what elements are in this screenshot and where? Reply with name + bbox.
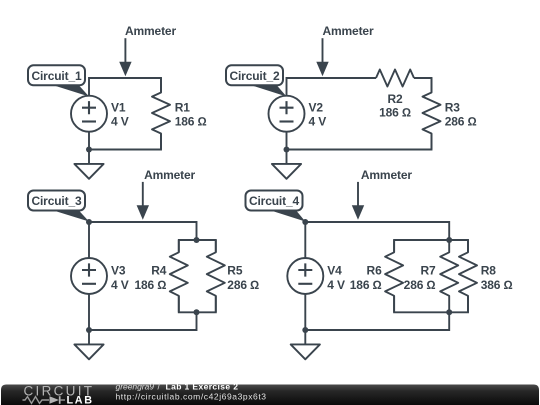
svg-text:186 Ω: 186 Ω — [350, 278, 382, 292]
svg-text:Circuit_1: Circuit_1 — [31, 69, 81, 83]
wire: Circuit 2 bottom wire — [287, 132, 432, 150]
svg-text:V3: V3 — [111, 263, 126, 277]
svg-text:R1: R1 — [175, 100, 191, 114]
svg-text:R8: R8 — [481, 263, 497, 277]
wire: Circuit 4 bottom wire — [305, 294, 449, 330]
node: circuit 3 parallel top junction — [194, 237, 200, 243]
svg-text:286 Ω: 286 Ω — [404, 278, 436, 292]
wire: Circuit 4 parallel top bar — [394, 240, 468, 252]
resistor R8 — [459, 240, 477, 312]
resistor R3 — [423, 78, 441, 150]
svg-text:Ammeter: Ammeter — [361, 168, 412, 182]
svg-text:4 V: 4 V — [309, 114, 327, 128]
svg-text:R2: R2 — [387, 92, 403, 106]
svg-text:R5: R5 — [227, 263, 243, 277]
svg-text:LAB: LAB — [67, 395, 93, 405]
ground circuit 3 — [88, 330, 90, 344]
resistor R2 — [376, 70, 414, 87]
svg-text:http://circuitlab.com/c42j69a3: http://circuitlab.com/c42j69a3px6t3 — [116, 392, 267, 402]
ammeter probe circuit 4 — [357, 182, 359, 206]
svg-text:V2: V2 — [309, 100, 324, 114]
resistor R6 — [385, 240, 403, 312]
svg-text:4 V: 4 V — [111, 278, 129, 292]
node: circuit 4 top-left junction — [302, 219, 308, 225]
wire: Circuit 1 top wire — [89, 78, 161, 96]
resistor R5 — [207, 240, 225, 312]
node: circuit 3 top-left junction — [86, 219, 92, 225]
ammeter probe circuit 2 — [322, 38, 324, 63]
svg-text:R6: R6 — [367, 263, 383, 277]
resistor R1 — [152, 78, 170, 150]
svg-text:Ammeter: Ammeter — [323, 24, 374, 38]
wire: Circuit 3 bottom wire — [89, 294, 197, 330]
node: junction dot circuit 2 — [284, 147, 290, 153]
node: circuit 4 parallel bottom junction — [446, 309, 452, 315]
voltage source V2 — [269, 96, 305, 132]
ground circuit 4 — [304, 330, 306, 344]
resistor R7 — [440, 240, 458, 312]
node: junction dot circuit 1 — [86, 147, 92, 153]
label Circuit_4 — [265, 209, 306, 222]
wire: Circuit 4 parallel bottom bar — [394, 296, 468, 312]
node: circuit 3 bottom-left junction — [86, 327, 92, 333]
svg-text:286 Ω: 286 Ω — [227, 278, 259, 292]
svg-text:4 V: 4 V — [111, 114, 129, 128]
voltage source V1 — [71, 96, 107, 132]
svg-text:Circuit_3: Circuit_3 — [31, 194, 81, 208]
wire: Circuit 3 top wire — [89, 222, 197, 258]
svg-text:greengra9: greengra9 — [116, 381, 155, 391]
label Circuit_2 — [245, 83, 287, 96]
node: circuit 4 bottom-left junction — [302, 327, 308, 333]
svg-text:Ammeter: Ammeter — [125, 24, 176, 38]
footer logo resistor-diode squiggle — [23, 397, 50, 404]
svg-text:Ammeter: Ammeter — [144, 168, 195, 182]
svg-text:V1: V1 — [111, 100, 126, 114]
node: circuit 3 parallel bottom junction — [194, 309, 200, 315]
svg-text:4 V: 4 V — [327, 278, 345, 292]
label Circuit_1 — [47, 83, 89, 96]
wire: Circuit 3 parallel top bar — [179, 240, 216, 252]
wire: Circuit 1 bottom wire — [89, 132, 161, 150]
svg-text:Lab 1 Exercise 2: Lab 1 Exercise 2 — [166, 381, 239, 391]
svg-text:V4: V4 — [327, 263, 342, 277]
svg-text:186 Ω: 186 Ω — [175, 114, 207, 128]
voltage source V4 — [287, 258, 323, 294]
wire: Circuit 2 right wire — [414, 78, 432, 93]
wire: Circuit 2 top wire — [287, 78, 377, 96]
svg-text:286 Ω: 286 Ω — [445, 114, 477, 128]
node: circuit 4 parallel top junction — [446, 237, 452, 243]
svg-text:186 Ω: 186 Ω — [134, 278, 166, 292]
voltage source V3 — [71, 258, 107, 294]
label Circuit_3 — [47, 209, 89, 222]
svg-text:Circuit_2: Circuit_2 — [229, 69, 279, 83]
wire: Circuit 3 parallel bottom bar — [179, 296, 216, 312]
svg-text:186 Ω: 186 Ω — [379, 105, 411, 119]
ground circuit 2 — [286, 150, 288, 164]
ammeter probe circuit 1 — [124, 38, 126, 63]
footer bar — [1, 385, 539, 405]
svg-text:386 Ω: 386 Ω — [481, 278, 513, 292]
wire: Circuit 4 top wire — [305, 222, 449, 258]
svg-text:Circuit_4: Circuit_4 — [249, 194, 299, 208]
ammeter probe circuit 3 — [142, 182, 144, 206]
svg-text:R7: R7 — [420, 263, 436, 277]
ground circuit 1 — [88, 150, 90, 164]
resistor R4 — [170, 240, 188, 312]
svg-text:R3: R3 — [445, 100, 461, 114]
svg-text:R4: R4 — [151, 263, 167, 277]
